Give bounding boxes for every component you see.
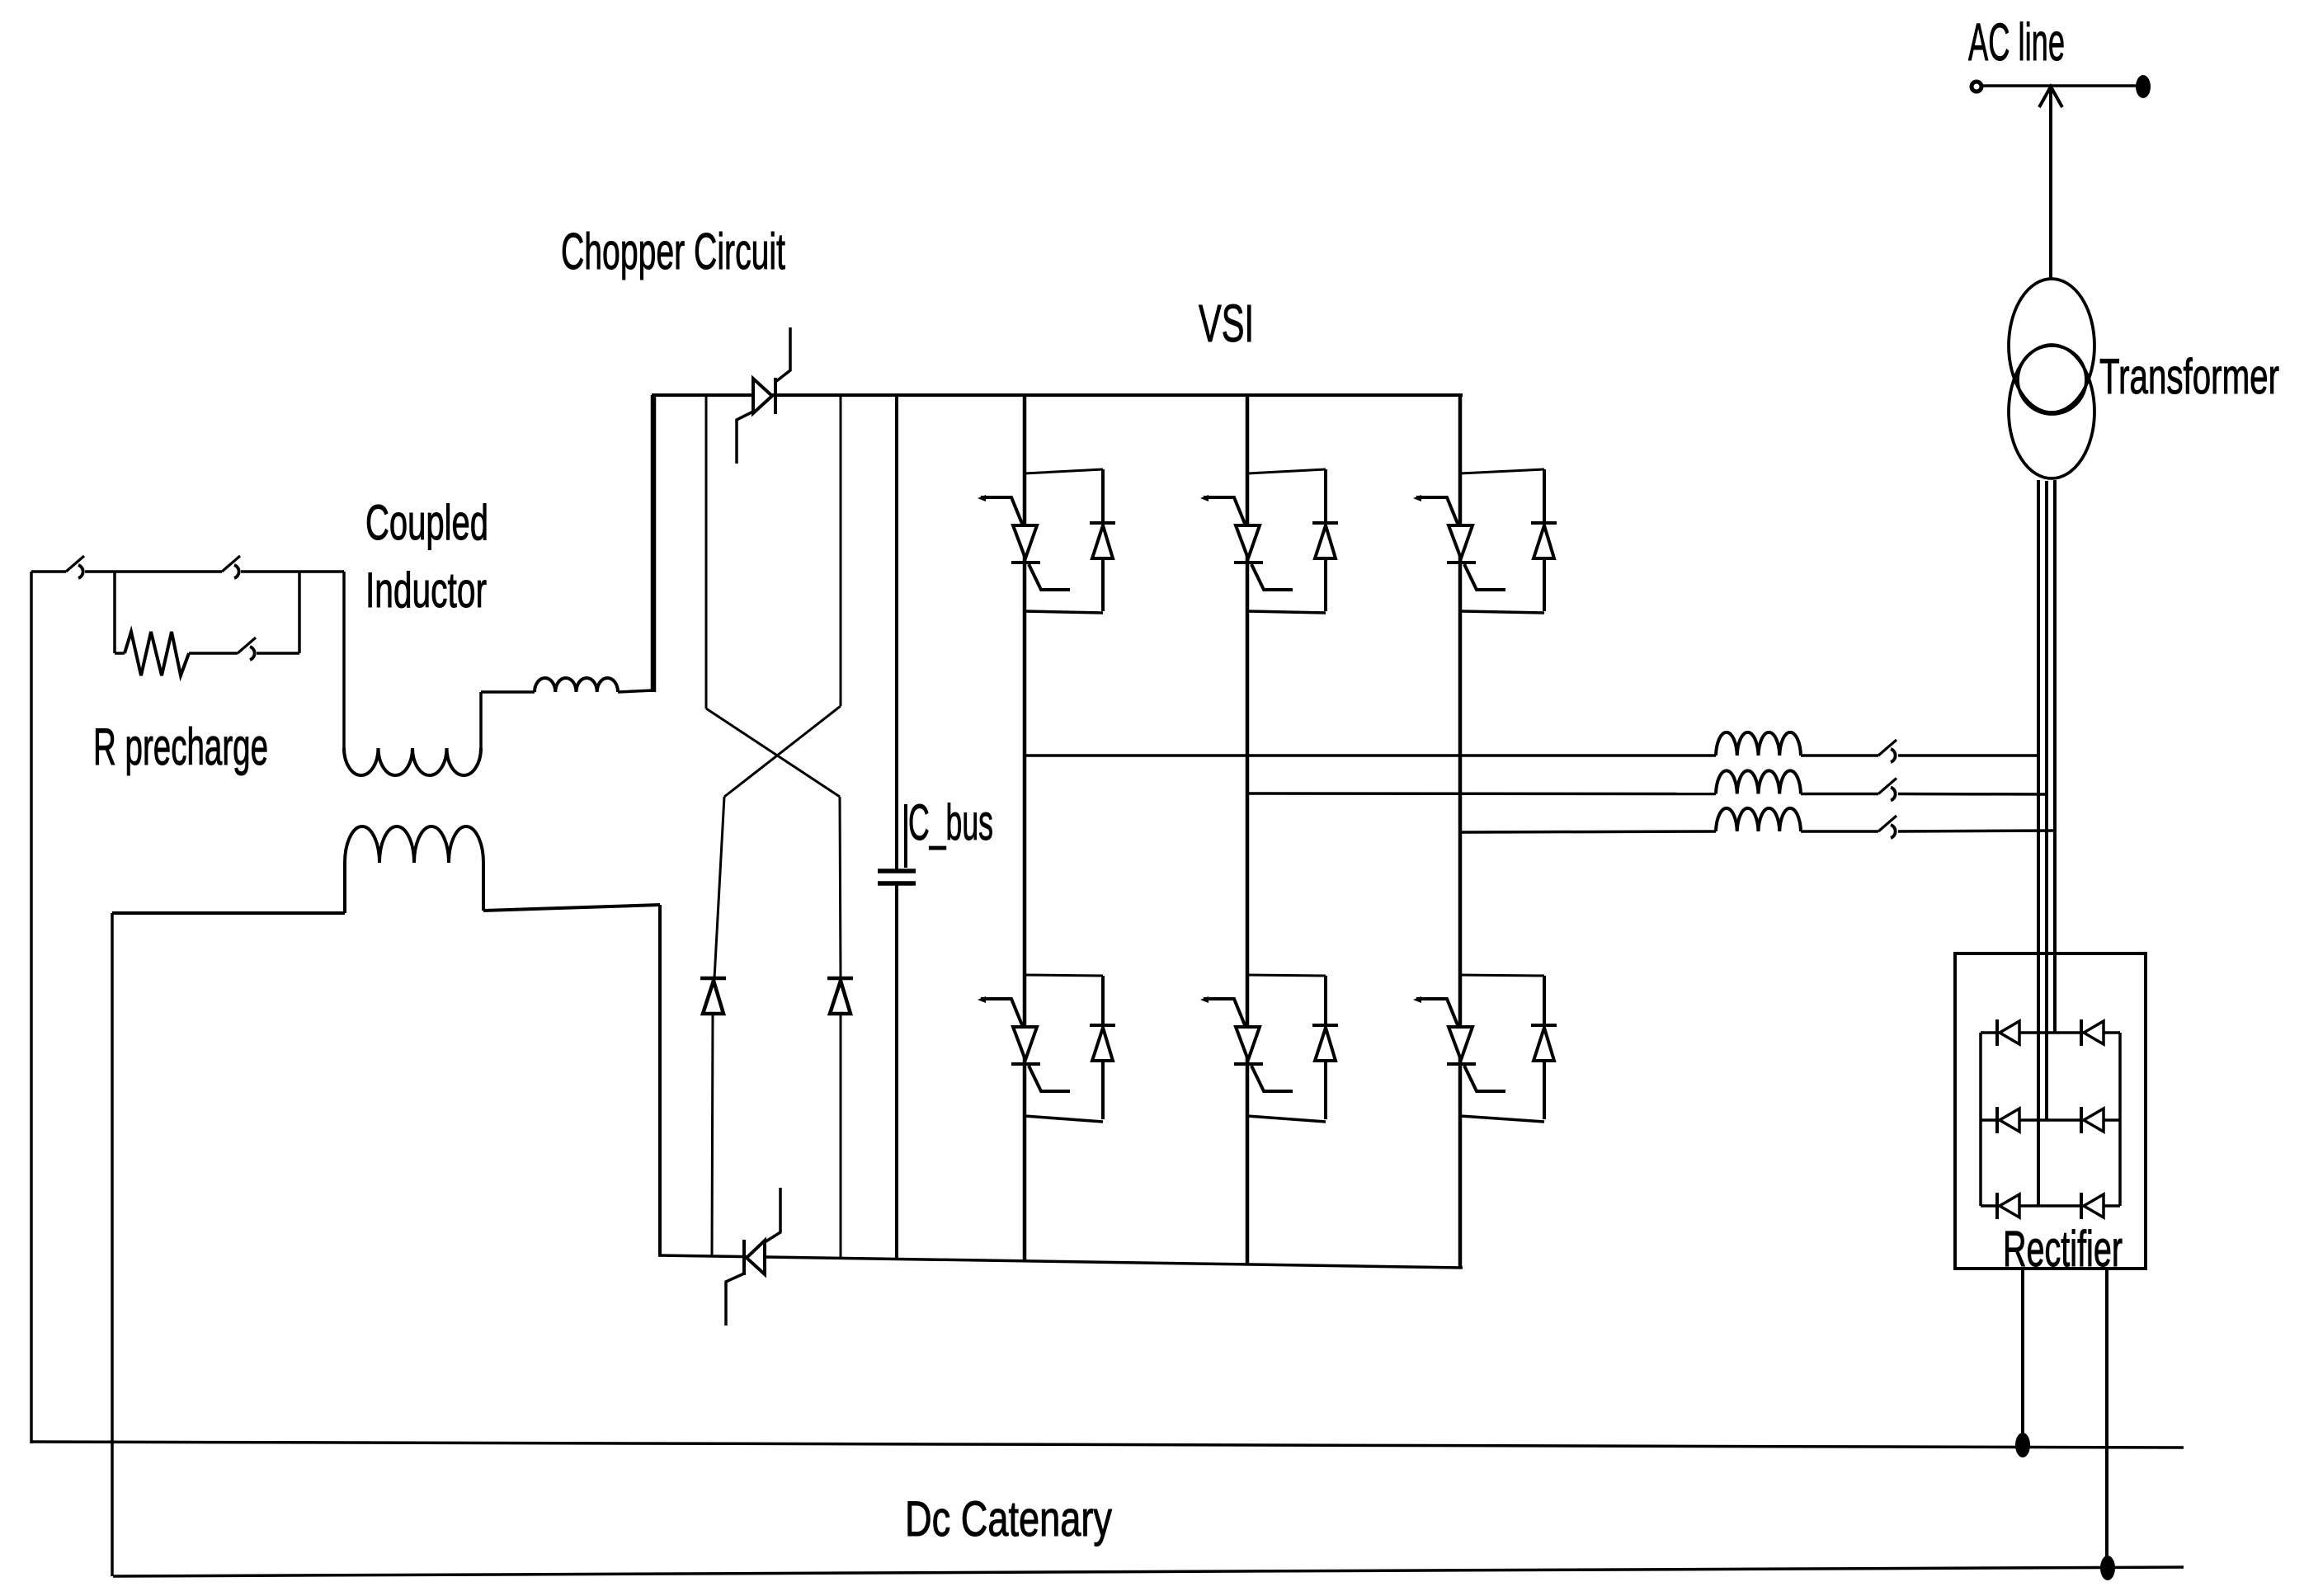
wire chopper left diode to bus (712, 1014, 713, 1257)
wire vertical into coupled inductor top winding (342, 572, 346, 748)
wire chopper right inner leg (840, 395, 842, 706)
svg-text:R precharge: R precharge (93, 718, 268, 776)
inductor LB (output filter) (1716, 770, 1801, 793)
wire resistor to S2 (189, 652, 238, 655)
wire S2 to branch right vertical (257, 652, 299, 655)
diode D2b (lower antiparallel, leg 2) (1312, 1025, 1338, 1061)
svg-text:VSI: VSI (1199, 294, 1254, 353)
junction node on upper catenary (2015, 1433, 2030, 1457)
transformer T1 secondary winding (bottom ellipse) (2009, 345, 2094, 478)
diode DR2 (top right) (2081, 1019, 2104, 1046)
rectifier bridge bottom row wire (1981, 1204, 2120, 1208)
wire left outer vertical (30, 572, 33, 1443)
transformer T1 primary winding (top ellipse) (2009, 279, 2094, 412)
rectifier outer box (1955, 953, 2146, 1269)
node AC line terminal (solid) (2136, 75, 2151, 98)
wire phase A switch to transformer lead (1898, 754, 2038, 757)
thyristor S1a (upper, leg 1) (978, 495, 1070, 590)
node AC line terminal (open) (1972, 82, 1981, 92)
switch S2 (precharge bypass) (238, 638, 256, 660)
wire AC line horizontal (1982, 84, 2137, 87)
wire left inner vertical to bottom catenary (111, 913, 114, 1576)
wire chopper cross diagonal left-to-right (706, 709, 840, 797)
rectifier bridge right rail (2118, 1033, 2122, 1206)
wire precharge branch stub (115, 652, 125, 655)
wire transformer lead 1 (to rectifier bottom row) (2037, 480, 2040, 1206)
switch SWC (phase C breaker) (1878, 816, 1896, 838)
inductor LA (output filter) (1716, 732, 1801, 756)
wire rectifier DC output right (2105, 1269, 2108, 1568)
wire Dc catenary lower conductor (113, 1567, 2184, 1576)
thyristor S2a (upper, leg 2) (1200, 495, 1293, 590)
wire DC+ top bus (652, 393, 1463, 397)
label tick C_bus (904, 804, 907, 868)
thyristor S2b (lower, leg 2) (1200, 996, 1293, 1091)
thyristor T_ch1 (chopper top, on DC+ bus) (737, 327, 790, 464)
wire chopper left lower vertical (714, 797, 724, 978)
transformer T1 tertiary winding (middle circle) (2018, 346, 2086, 414)
thyristor S3a (upper, leg 3) (1413, 495, 1505, 590)
svg-text:Coupled: Coupled (365, 495, 488, 550)
wire C_bus top lead (895, 395, 898, 870)
switch S3 (main contactor) (222, 556, 240, 578)
wire phase B inductor to switch (1801, 793, 1878, 796)
diode D_ch2 (chopper right) (827, 978, 853, 1014)
coupled inductor winding L2 (lower, humps up) (345, 826, 483, 913)
wire S3 to coupled-inductor drop (241, 570, 344, 573)
wire rectifier DC output left (2021, 1269, 2024, 1445)
switch SWB (phase B breaker) (1878, 779, 1896, 801)
wire chopper cross diagonal right-to-left (724, 706, 841, 797)
wire top-left horizontal segment 1 (31, 570, 66, 573)
thyristor S3b (lower, leg 3) (1413, 996, 1505, 1091)
wire transformer lead 3 (to rectifier top row) (2053, 480, 2057, 1033)
wire phase C from VSI midpoint (1460, 831, 1716, 832)
wire L2 to chopper negative rail (483, 905, 660, 911)
thyristor T_ch2 (chopper bottom, on DC- bus) (726, 1188, 780, 1325)
wire phase B from VSI midpoint (1247, 792, 1716, 795)
rectifier bridge middle row wire (1981, 1118, 2120, 1122)
switch S1 (line breaker) (66, 556, 84, 578)
wire chopper negative rail vertical (658, 905, 662, 1256)
IGBT pair box upper leg 1 (1025, 469, 1103, 613)
IGBT pair box upper leg 2 (1247, 469, 1326, 613)
VSI leg 2 vertical (1246, 395, 1250, 1264)
svg-text:Rectifier: Rectifier (2003, 1221, 2123, 1277)
wire riser to top small winding (481, 690, 535, 694)
wire chopper positive rail vertical (thick) (651, 395, 657, 692)
diode D3b (lower antiparallel, leg 3) (1531, 1025, 1557, 1061)
wire chopper right diode to bus (840, 1014, 842, 1259)
diode DR5 (bottom left) (1997, 1193, 2019, 1219)
IGBT pair box upper leg 3 (1460, 469, 1544, 613)
wire top winding to chopper positive rail (618, 690, 653, 692)
diode D_ch1 (chopper left) (700, 978, 726, 1014)
wire between S1 and S3 (85, 570, 222, 573)
rectifier bridge left rail (1979, 1033, 1982, 1206)
diode D2a (upper antiparallel, leg 2) (1312, 523, 1338, 558)
wire transformer lead 2 (to rectifier middle row) (2045, 481, 2048, 1120)
wire phase C inductor to switch (1801, 830, 1878, 833)
wire L1 right vertical riser (479, 692, 483, 748)
wire C_bus bottom lead (895, 883, 898, 1259)
switch SWA (phase A breaker) (1878, 740, 1896, 762)
junction node on lower catenary (2100, 1556, 2115, 1580)
svg-text:Transformer: Transformer (2099, 349, 2279, 404)
VSI leg 3 vertical (1458, 395, 1463, 1268)
diode D3a (upper antiparallel, leg 3) (1531, 523, 1557, 558)
IGBT pair box lower leg 3 (1460, 975, 1544, 1122)
wire phase B switch to transformer lead (1898, 793, 2047, 796)
wire arrow shaft to AC line (2049, 88, 2052, 279)
wire lower rail horizontal (112, 911, 345, 915)
wire chopper left inner leg (705, 395, 708, 709)
wire Dc catenary upper conductor (31, 1442, 2184, 1448)
svg-text:Chopper Circuit: Chopper Circuit (561, 224, 785, 280)
diode DR6 (bottom right) (2081, 1193, 2104, 1219)
wire DC- bottom bus (658, 1255, 1463, 1268)
diode D1a (upper antiparallel, leg 1) (1090, 523, 1115, 558)
resistor R precharge (125, 632, 189, 676)
capacitor C_bus (878, 871, 916, 883)
wire phase C switch to transformer lead (1898, 831, 2055, 831)
coupled inductor winding L1 (upper, humps down) (344, 748, 481, 775)
diode DR1 (top left) (1997, 1019, 2019, 1046)
wire chopper right lower vertical (840, 797, 841, 978)
IGBT pair box lower leg 2 (1247, 975, 1326, 1122)
diode DR3 (middle left) (1997, 1107, 2019, 1133)
wire phase A from VSI midpoint (1025, 754, 1716, 757)
rectifier bridge top row wire (1981, 1031, 2120, 1034)
svg-text:Dc Catenary: Dc Catenary (905, 1491, 1112, 1547)
IGBT pair box lower leg 1 (1025, 975, 1103, 1122)
svg-text:Inductor: Inductor (365, 563, 487, 618)
wire precharge branch left vertical (113, 572, 116, 653)
arrowhead (2039, 87, 2062, 107)
thyristor S1b (lower, leg 1) (978, 996, 1070, 1091)
inductor LC (output filter) (1716, 808, 1801, 831)
coupled inductor top winding (humps up) (535, 678, 618, 692)
diode D1b (lower antiparallel, leg 1) (1090, 1025, 1115, 1061)
VSI leg 1 vertical (1023, 395, 1027, 1261)
wire phase A inductor to switch (1801, 754, 1878, 757)
svg-text:C_bus: C_bus (908, 794, 993, 850)
wire precharge branch right vertical (298, 572, 301, 653)
diode DR4 (middle right) (2081, 1107, 2104, 1133)
svg-text:AC line: AC line (1968, 12, 2065, 72)
